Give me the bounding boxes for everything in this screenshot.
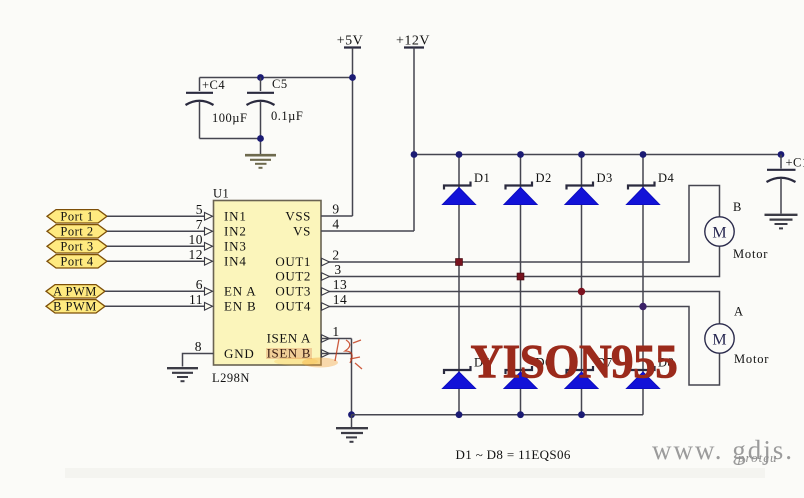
svg-text:ISEN A: ISEN A bbox=[267, 330, 311, 345]
pin number 1 bbox=[332, 324, 339, 339]
junction node top bus col 1 bbox=[456, 151, 463, 158]
wire Port 2 to IC bbox=[107, 230, 205, 232]
pin number 5 bbox=[196, 202, 203, 217]
label Motor (B) bbox=[733, 247, 768, 261]
junction node bottom bus col 3 bbox=[578, 411, 585, 418]
svg-text:D1 ~ D8 = 11EQS06: D1 ~ D8 = 11EQS06 bbox=[456, 447, 571, 462]
junction node bottom bus col 1 bbox=[456, 411, 463, 418]
svg-text:6: 6 bbox=[196, 277, 203, 292]
junction node C5 bottom bbox=[257, 135, 264, 142]
svg-text:2: 2 bbox=[332, 248, 339, 263]
wire VSS pin 9 stub bbox=[321, 215, 353, 217]
pin number 7 bbox=[196, 217, 203, 232]
svg-text:OUT2: OUT2 bbox=[275, 268, 311, 283]
ground (below C5) bbox=[245, 155, 276, 168]
svg-text:VS: VS bbox=[293, 223, 311, 238]
junction node OUT2/D2 bbox=[517, 273, 524, 280]
junction node ISEN/ground bbox=[348, 411, 355, 418]
svg-text:IN1: IN1 bbox=[224, 208, 247, 223]
svg-text:VSS: VSS bbox=[285, 208, 311, 223]
pin output triangle bbox=[322, 258, 330, 266]
diode D6 bbox=[504, 356, 552, 389]
svg-text:GND: GND bbox=[224, 346, 255, 361]
wire diode column 3 bbox=[581, 155, 583, 415]
diode D8 bbox=[627, 356, 675, 389]
value label L298N bbox=[212, 371, 250, 385]
power +5V bbox=[337, 34, 364, 49]
wire ISEN to bottom bus bbox=[351, 339, 353, 415]
svg-text:IN4: IN4 bbox=[224, 253, 247, 268]
svg-text:U1: U1 bbox=[213, 187, 229, 201]
svg-text:12: 12 bbox=[189, 247, 204, 262]
svg-text:Motor: Motor bbox=[734, 352, 769, 366]
svg-text:5: 5 bbox=[196, 202, 203, 217]
wire Port 4 to IC bbox=[107, 260, 205, 262]
pin number 2 bbox=[332, 248, 339, 263]
svg-text:+12V: +12V bbox=[396, 34, 430, 49]
diode D1 bbox=[443, 171, 491, 205]
artifact gray band bbox=[65, 468, 765, 478]
pin input triangle B PWM bbox=[205, 303, 213, 311]
pin output triangle bbox=[322, 273, 330, 281]
node A PWM terminal bbox=[46, 285, 105, 299]
diode D7 bbox=[565, 356, 613, 389]
pin number 11 bbox=[189, 292, 203, 307]
node Port 1 terminal bbox=[47, 210, 107, 224]
pin input triangle Port 3 bbox=[205, 243, 213, 251]
wire +5V rail to VSS bbox=[352, 48, 354, 217]
pin number 3 bbox=[334, 262, 341, 277]
motor B bbox=[705, 217, 734, 246]
pin number 8 bbox=[195, 339, 202, 354]
svg-text:D4: D4 bbox=[658, 171, 675, 185]
svg-text:OUT1: OUT1 bbox=[275, 254, 311, 269]
wire A PWM to IC bbox=[105, 290, 205, 292]
pin output triangle bbox=[322, 303, 330, 311]
svg-text:EN A: EN A bbox=[224, 283, 256, 298]
wire OUT4 to motor A bottom bbox=[321, 307, 720, 386]
pin output triangle bbox=[322, 335, 330, 343]
watermark proteu bbox=[737, 450, 777, 465]
svg-text:D2: D2 bbox=[536, 171, 552, 185]
svg-text:Motor: Motor bbox=[733, 247, 768, 261]
diode D5 bbox=[443, 356, 491, 389]
junction node OUT1/D1 bbox=[456, 259, 463, 266]
svg-text:7: 7 bbox=[196, 217, 203, 232]
wire Port 1 to IC bbox=[107, 215, 205, 217]
svg-text:100µF: 100µF bbox=[212, 111, 247, 125]
wire OUT2 to motor B bottom bbox=[321, 247, 720, 277]
svg-text:YISON955: YISON955 bbox=[471, 335, 678, 389]
svg-text:IN2: IN2 bbox=[224, 223, 247, 238]
wire diode column 2 bbox=[520, 155, 522, 415]
pin number 14 bbox=[333, 292, 348, 307]
wire C4/C5 top to +5V bbox=[200, 77, 353, 79]
svg-text:A PWM: A PWM bbox=[53, 285, 97, 299]
node B PWM terminal bbox=[46, 300, 105, 314]
watermark YISON955 bbox=[471, 335, 678, 389]
wire +12V rail to VS bbox=[413, 48, 415, 232]
wire diode column 4 bbox=[642, 155, 644, 415]
svg-text:B PWM: B PWM bbox=[53, 300, 97, 314]
pin number 9 bbox=[332, 202, 339, 217]
junction node top bus col 4 bbox=[640, 151, 647, 158]
junction node +5V bbox=[349, 74, 356, 81]
svg-text:L298N: L298N bbox=[212, 371, 250, 385]
pin label OUT3 bbox=[275, 283, 311, 298]
capacitor C5 bbox=[247, 77, 304, 154]
svg-text:A: A bbox=[734, 305, 744, 319]
pin number 4 bbox=[332, 217, 339, 232]
svg-text:M: M bbox=[712, 332, 726, 349]
junction node top bus col 3 bbox=[578, 151, 585, 158]
svg-text:4: 4 bbox=[332, 217, 339, 232]
pin label ISEN A bbox=[267, 330, 311, 345]
svg-text:OUT3: OUT3 bbox=[275, 283, 311, 298]
svg-text:C5: C5 bbox=[272, 77, 288, 91]
pin output triangle bbox=[322, 350, 330, 358]
note D1~D8 part value bbox=[456, 447, 571, 462]
power +12V bbox=[396, 34, 430, 49]
pin input triangle Port 2 bbox=[205, 228, 213, 236]
wire VS pin 4 stub bbox=[321, 230, 414, 232]
label U1 bbox=[213, 187, 229, 201]
pin label OUT4 bbox=[275, 298, 311, 313]
ground (IC GND pin 8) bbox=[167, 368, 198, 381]
svg-text:Port 2: Port 2 bbox=[60, 225, 93, 239]
svg-text:9: 9 bbox=[332, 202, 339, 217]
pin label EN A bbox=[224, 283, 256, 298]
wire C4 bottom to C5 bottom bbox=[200, 138, 261, 140]
wire GND pin to ground bbox=[183, 354, 214, 367]
pin output triangle bbox=[322, 288, 330, 296]
svg-text:+5V: +5V bbox=[337, 34, 364, 49]
junction node top bus col 2 bbox=[517, 151, 524, 158]
capacitor C4 bbox=[186, 78, 248, 139]
pin number 10 bbox=[189, 232, 204, 247]
svg-text:10: 10 bbox=[189, 232, 204, 247]
pin number 6 bbox=[196, 277, 203, 292]
motor A bbox=[705, 324, 734, 353]
pin label OUT2 bbox=[275, 268, 311, 283]
diode D4 bbox=[627, 171, 675, 205]
wire OUT1 to motor B top bbox=[321, 186, 720, 263]
diode D2 bbox=[504, 171, 552, 205]
svg-text:3: 3 bbox=[334, 262, 341, 277]
pin label IN1 bbox=[224, 208, 247, 223]
svg-text:13: 13 bbox=[333, 277, 348, 292]
wire Port 3 to IC bbox=[107, 245, 205, 247]
pin number 13 bbox=[333, 277, 348, 292]
pin label VSS bbox=[285, 208, 311, 223]
wire bottom sense bus bbox=[352, 414, 644, 416]
node Port 4 terminal bbox=[47, 255, 107, 269]
ground (right capacitor) bbox=[765, 215, 798, 229]
wire ISEN A pin 1 bbox=[321, 338, 352, 340]
watermark www.gdjs bbox=[652, 435, 794, 465]
pin label VS bbox=[293, 223, 311, 238]
pin input triangle Port 4 bbox=[205, 258, 213, 266]
junction node bottom bus col 2 bbox=[517, 411, 524, 418]
node Port 2 terminal bbox=[47, 225, 107, 239]
pin number 12 bbox=[189, 247, 204, 262]
svg-text:Port 1: Port 1 bbox=[60, 210, 93, 224]
pin label EN B bbox=[224, 298, 256, 313]
svg-text:proteu: proteu bbox=[737, 450, 777, 465]
svg-text:14: 14 bbox=[333, 292, 348, 307]
op-amp U1 body (L298N driver IC) bbox=[214, 201, 322, 366]
wire diode column 1 bbox=[458, 155, 460, 415]
svg-text:0.1µF: 0.1µF bbox=[271, 109, 303, 123]
label Motor (A) bbox=[734, 352, 769, 366]
svg-text:D1: D1 bbox=[474, 171, 490, 185]
wire B PWM to IC bbox=[105, 305, 205, 307]
svg-text:OUT4: OUT4 bbox=[275, 298, 311, 313]
svg-text:8: 8 bbox=[195, 339, 202, 354]
svg-text:EN B: EN B bbox=[224, 298, 256, 313]
capacitor C1 (right, polarized) bbox=[767, 155, 804, 214]
wire ISEN B pin 15 bbox=[321, 353, 352, 355]
wire +12V top bus bbox=[414, 154, 781, 156]
artifact orange smear at IC bottom bbox=[274, 358, 338, 368]
pin label GND bbox=[224, 346, 255, 361]
artifact red tint ISEN B bbox=[266, 348, 312, 359]
svg-text:B: B bbox=[733, 200, 742, 214]
svg-text:M: M bbox=[712, 225, 726, 242]
junction node OUT3/D3 bbox=[578, 288, 585, 295]
svg-text:Port 4: Port 4 bbox=[60, 255, 93, 269]
pin label IN4 bbox=[224, 253, 247, 268]
pin label OUT1 bbox=[275, 254, 311, 269]
svg-text:+C1: +C1 bbox=[786, 156, 804, 170]
label A bbox=[734, 305, 744, 319]
junction node OUT4/D4 bbox=[639, 303, 646, 310]
svg-text:1: 1 bbox=[332, 324, 339, 339]
svg-text:11: 11 bbox=[189, 292, 203, 307]
label B bbox=[733, 200, 742, 214]
junction node +12V bus bbox=[411, 151, 418, 158]
pin input triangle A PWM bbox=[205, 288, 213, 296]
pin input triangle Port 1 bbox=[205, 213, 213, 221]
svg-text:IN3: IN3 bbox=[224, 238, 247, 253]
junction node bus/C right bbox=[778, 151, 785, 158]
wire OUT3 to motor A top bbox=[321, 292, 720, 325]
svg-text:Port 3: Port 3 bbox=[60, 240, 93, 254]
svg-text:D3: D3 bbox=[597, 171, 613, 185]
pin label IN3 bbox=[224, 238, 247, 253]
pin label IN2 bbox=[224, 223, 247, 238]
artifact red scribble pin 15 bbox=[335, 339, 362, 369]
diode D3 bbox=[565, 171, 613, 205]
ground (ISEN sense) bbox=[336, 415, 368, 442]
svg-text:+C4: +C4 bbox=[202, 78, 225, 92]
junction node C5 top bbox=[257, 74, 264, 81]
node Port 3 terminal bbox=[47, 240, 107, 254]
pin label ISEN B bbox=[267, 346, 311, 361]
